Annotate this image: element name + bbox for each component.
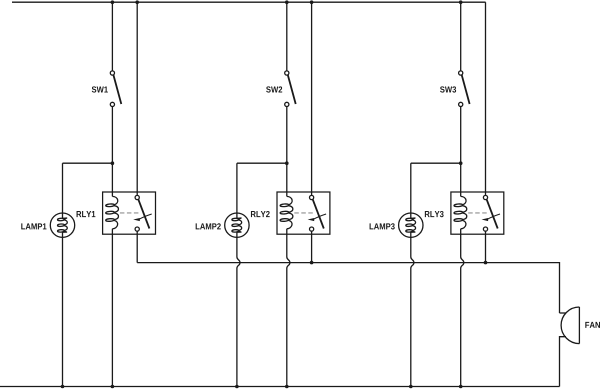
wire: LAMP1 top lead <box>62 163 64 218</box>
relay RLY1 body <box>103 192 156 234</box>
wire: SW3 to RLY3 coil <box>460 107 462 197</box>
wire: RLY2 switch to output bus <box>311 231 313 262</box>
wire: top rail to RLY3 switch <box>485 2 487 195</box>
wire: relay output bus to fan column <box>137 263 559 313</box>
wire: top rail to RLY2 switch <box>311 2 313 195</box>
relay RLY3 body <box>451 192 504 234</box>
junction: RLY2 switch / output bus <box>310 261 314 265</box>
label SW1 <box>92 86 108 92</box>
relay RLY3 dashed actuation link <box>468 212 487 214</box>
wire: fan bottom lead to bottom rail <box>560 337 567 387</box>
wire: top rail to RLY1 switch <box>136 2 138 195</box>
relay RLY2 coil <box>280 196 293 228</box>
switch SW3 <box>459 71 470 107</box>
label LAMP3 <box>370 223 395 229</box>
wire: LAMP2 top lead <box>236 163 238 218</box>
junction: RLY3 coil / bottom rail <box>459 385 463 389</box>
junction: top rail / RLY2 switch branch <box>310 0 314 4</box>
wire: LAMP1 branch tee <box>63 162 113 164</box>
wire: bottom return rail <box>0 386 560 388</box>
wire: fan top lead <box>560 312 567 314</box>
relay RLY2 body <box>277 192 330 234</box>
wire: top rail to SW3 <box>460 2 462 71</box>
wire: top supply rail <box>12 1 486 3</box>
wire: LAMP3 top lead <box>410 163 412 218</box>
relay RLY3 actuation arrow <box>482 214 501 221</box>
lamp LAMP3 <box>399 213 423 237</box>
wire: LAMP1 bottom lead <box>62 232 64 386</box>
lamp LAMP1 <box>50 213 74 237</box>
relay RLY2 actuation arrow <box>308 214 327 221</box>
junction: RLY3 switch / output bus <box>484 261 488 265</box>
relay RLY3 switch contacts <box>483 195 497 231</box>
label RLY1 <box>77 211 96 217</box>
relay RLY2 dashed actuation link <box>294 212 313 214</box>
wire: RLY1 coil to bottom rail <box>111 229 113 387</box>
wire: LAMP2 branch tee <box>237 162 287 164</box>
lamp LAMP2 <box>225 213 249 237</box>
relay RLY1 actuation arrow <box>133 214 152 221</box>
label SW3 <box>440 86 456 92</box>
junction: LAMP3 / bottom rail <box>409 385 413 389</box>
wire: SW2 to RLY2 coil <box>286 107 288 197</box>
relay RLY2 switch contacts <box>310 195 324 231</box>
wire: RLY3 coil to bottom rail <box>461 229 464 387</box>
label SW2 <box>266 86 282 92</box>
wire: RLY2 coil to bottom rail <box>287 229 290 387</box>
junction: RLY2 coil / bottom rail <box>285 385 289 389</box>
wire: LAMP3 branch tee <box>411 162 461 164</box>
wire: LAMP3 bottom lead <box>411 232 414 386</box>
switch SW1 <box>110 71 121 107</box>
junction: LAMP2 tee <box>285 161 289 165</box>
label RLY3 <box>425 211 444 217</box>
label LAMP2 <box>196 223 221 229</box>
wire: LAMP2 bottom lead <box>237 232 240 386</box>
relay RLY3 coil <box>454 196 467 228</box>
junction: top rail / RLY1 switch branch <box>135 0 139 4</box>
label LAMP1 <box>21 223 46 229</box>
junction: top rail / SW2 branch <box>285 0 289 4</box>
junction: top rail / SW3 branch <box>459 0 463 4</box>
fan FAN <box>561 307 579 344</box>
wire: top rail to SW2 <box>286 2 288 71</box>
wire: top rail to SW1 <box>111 2 113 71</box>
wire: RLY1 switch to output bus <box>136 231 138 262</box>
wire: SW1 to RLY1 coil <box>111 107 113 197</box>
wire: RLY3 switch to output bus <box>485 231 487 262</box>
junction: RLY1 coil / bottom rail <box>111 385 115 389</box>
label RLY2 <box>251 211 270 217</box>
junction: LAMP1 tee <box>111 161 115 165</box>
junction: top rail / SW1 branch <box>111 0 115 4</box>
junction: LAMP1 / bottom rail <box>61 385 65 389</box>
switch SW2 <box>285 71 296 107</box>
relay RLY1 switch contacts <box>135 195 149 231</box>
junction: LAMP2 / bottom rail <box>235 385 239 389</box>
relay RLY1 coil <box>106 196 119 228</box>
label FAN <box>585 322 600 328</box>
relay RLY1 dashed actuation link <box>120 212 139 214</box>
junction: LAMP3 tee <box>459 161 463 165</box>
